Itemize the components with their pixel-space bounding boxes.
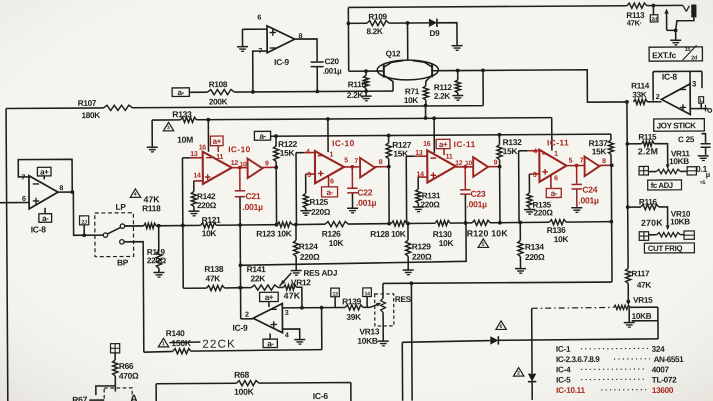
svg-text:10KB: 10KB (632, 312, 652, 321)
wire IC-9 pin 2 input (241, 318, 253, 320)
resistor R125 220 (stage 2) (305, 174, 307, 193)
svg-text:a-: a- (259, 132, 266, 141)
wire filter bias line (271, 134, 611, 136)
svg-text:a+: a+ (40, 168, 49, 177)
svg-text:IC-10: IC-10 (332, 138, 355, 148)
node a- (R108 input) (172, 88, 189, 97)
svg-text:R110: R110 (348, 80, 367, 89)
wire stage 4 input vertical / resistor R134 220 (519, 151, 521, 241)
wire ota output (stage 4) (566, 165, 584, 167)
svg-text:C22: C22 (357, 187, 372, 197)
svg-text:7: 7 (580, 158, 584, 165)
svg-text:R124: R124 (299, 241, 319, 251)
svg-text:9: 9 (494, 159, 498, 166)
svg-text:µ: µ (706, 170, 710, 179)
svg-text:CUT FRIQ: CUT FRIQ (648, 244, 683, 253)
buffer IC-10a follower (stage 1) (248, 158, 263, 178)
wire IC-11 pin 1 (stage 4) (551, 118, 553, 151)
resistor R130 10K (435, 221, 450, 226)
wire stage 2 input vertical / resistor R124 220 (296, 153, 297, 241)
wire IC-8 right plus input (690, 108, 708, 110)
wire pin 6 stub / node a- box (stage 4) (550, 175, 552, 188)
svg-text:R140: R140 (166, 328, 186, 338)
svg-text:220Ω: 220Ω (147, 256, 167, 265)
resistor R133 10M (152, 119, 180, 121)
svg-text:BP: BP (117, 257, 129, 267)
resistor R128 10K (391, 221, 407, 226)
wire legend diode line (402, 339, 658, 401)
svg-text:R118: R118 (142, 203, 161, 213)
svg-text:200K: 200K (209, 97, 228, 106)
svg-text:470Ω: 470Ω (119, 371, 139, 381)
capacitor C25 0.1u (702, 134, 706, 143)
svg-text:13: 13 (190, 151, 198, 158)
svg-text:10KB: 10KB (357, 336, 378, 346)
resistor R119 220 (158, 226, 160, 251)
resistor R66 470 (114, 353, 116, 360)
switch LP/BP dashed box (95, 213, 134, 257)
trimmer VR12 47K (RES ADJ) (284, 285, 297, 290)
svg-text:C24: C24 (582, 185, 597, 195)
op-amp IC-8 (right) box (653, 71, 702, 100)
svg-text:12: 12 (231, 160, 239, 167)
wire pin 6 stub / node a- box (stage 2) (328, 176, 330, 187)
wire stage 3 input vertical / resistor R129 220 (406, 156, 408, 240)
svg-text:5: 5 (482, 242, 485, 248)
svg-text:D9: D9 (429, 29, 440, 38)
svg-text:.001µ: .001µ (578, 195, 599, 205)
capacitor C23 .001u (stage 3) (464, 167, 466, 189)
svg-text:5: 5 (344, 157, 348, 164)
svg-text:47K: 47K (284, 291, 301, 301)
wire IC-11 pin 16 (stage 3) (433, 118, 435, 153)
connector box 2d (R113) (650, 15, 658, 22)
svg-text:10K: 10K (404, 96, 419, 105)
svg-text:IC-8: IC-8 (31, 224, 47, 234)
svg-text:47K: 47K (205, 273, 220, 283)
svg-text:R107: R107 (78, 99, 97, 108)
svg-text:33K: 33K (632, 90, 647, 99)
ota IC-10b (stage 2) (315, 151, 344, 183)
connector box 13 (331, 288, 340, 297)
svg-text:10KB: 10KB (670, 217, 690, 226)
wire pin 14 input (stage 3) (418, 176, 427, 178)
svg-text:8.2K: 8.2K (366, 27, 383, 36)
svg-text:220Ω: 220Ω (525, 252, 545, 262)
capacitor C22 .001u (stage 2) (351, 167, 353, 188)
wire ota output (stage 3) (456, 166, 473, 168)
resistor R139 39K (345, 305, 363, 310)
warning triangle 6 (output diode) (496, 321, 506, 330)
svg-text:324: 324 (652, 345, 666, 354)
node a+ box (stage 1) (210, 136, 223, 146)
switch pole (103, 233, 107, 237)
wire line A (audio input bus) (6, 70, 485, 401)
wire stage 1 input vertical (181, 158, 184, 288)
resistor R110 2.2K (365, 71, 367, 75)
svg-text:R121: R121 (202, 215, 222, 225)
diode D9 (429, 19, 437, 27)
svg-text:R67: R67 (72, 395, 87, 401)
pot VR11 10KB (fc ADJ) (639, 166, 648, 175)
svg-text:8: 8 (379, 159, 383, 166)
wire C21 node vertical (to IC-9 pin 2) (239, 225, 242, 319)
wire IC-10 pin 16 (stage 1) (207, 120, 209, 152)
svg-text:220Ω: 220Ω (421, 200, 441, 209)
svg-text:IC-11: IC-11 (547, 137, 569, 147)
svg-text:R142: R142 (197, 192, 216, 201)
svg-text:3: 3 (307, 172, 311, 179)
resistor R132 15K (stage 3) (498, 135, 500, 145)
svg-text:4: 4 (285, 330, 289, 339)
warning triangle 5 (R120) (478, 239, 488, 248)
svg-text:22K: 22K (250, 273, 265, 283)
op-amp IC-9 (top) pin 8 output wire (295, 39, 317, 61)
resistor R115 2.2M (627, 143, 641, 145)
svg-text:13: 13 (415, 150, 423, 157)
wire IC-10 pin 1 (stage 2) (327, 119, 329, 152)
svg-text:10K: 10K (439, 238, 454, 248)
svg-text:16: 16 (199, 144, 207, 151)
ota IC-11a (stage 3) (427, 150, 456, 182)
wire IC-9 output down to R140 (321, 308, 323, 350)
label CUT FRIQ box (644, 243, 694, 253)
svg-text:R71: R71 (405, 87, 420, 96)
svg-text:220Ω: 220Ω (534, 208, 554, 217)
warning triangle 1 (R140) (158, 338, 168, 347)
svg-text:IC-6: IC-6 (313, 391, 329, 401)
svg-text:12: 12 (455, 160, 463, 167)
resistor R116 270K (628, 206, 641, 208)
resistor R141 22K (251, 285, 278, 290)
svg-text:100K: 100K (234, 387, 254, 397)
label fc ADJ box (648, 180, 682, 190)
svg-text:A: A (130, 393, 138, 401)
svg-text:a-: a- (326, 188, 333, 197)
svg-text:IC-9: IC-9 (232, 323, 248, 333)
resistor R121 10K (201, 223, 217, 228)
warning triangle 4 (R118) (130, 189, 140, 198)
op-amp IC-8 (left) (29, 176, 58, 209)
svg-text:IC-2.3.6.7.8.9: IC-2.3.6.7.8.9 (556, 355, 600, 364)
svg-text:AN-6551: AN-6551 (654, 355, 685, 364)
svg-text:7: 7 (258, 46, 262, 55)
op-amp IC-8 (right) (661, 84, 690, 115)
svg-text:1: 1 (554, 151, 558, 158)
svg-text:IC-5: IC-5 (556, 375, 571, 384)
wire IC-8 feedback loop (18, 159, 72, 192)
capacitor C20 (311, 62, 324, 67)
op-amp IC-9 (top) pin 7 wire (253, 51, 268, 92)
svg-text:4007: 4007 (652, 365, 670, 374)
buffer IC-11b follower (stage 4) (585, 156, 600, 176)
svg-text:8: 8 (59, 183, 63, 192)
svg-text:15: 15 (685, 47, 691, 53)
svg-text:10K: 10K (202, 228, 217, 238)
pot VR15 10KB (626, 300, 630, 304)
svg-text:11: 11 (446, 154, 453, 161)
svg-text:RES: RES (395, 295, 412, 304)
svg-text:.001µ: .001µ (466, 199, 487, 209)
wire pin 4 input (stage 4) (528, 150, 540, 152)
wire IC-8 output (58, 192, 103, 236)
svg-text:R116: R116 (639, 198, 658, 207)
svg-text:6: 6 (554, 175, 558, 182)
wire Q12 left base line (349, 70, 377, 72)
svg-text:R109: R109 (368, 12, 387, 21)
wire pin 4 input (stage 2) (305, 152, 315, 154)
wire R66 to R67 box (96, 386, 116, 395)
label JOY STICK box (654, 119, 705, 132)
svg-text:15K: 15K (280, 148, 295, 158)
node a+ box (stage 3) (436, 139, 450, 148)
svg-text:15K: 15K (503, 146, 518, 156)
svg-text:6: 6 (22, 194, 26, 203)
wire R138/R141 feedback line (183, 287, 302, 308)
wire pin 3 input (stage 4) (529, 173, 539, 175)
capacitor C24 .001u (stage 4) (576, 166, 578, 184)
node a- box (IC-8 left) (39, 214, 52, 223)
resistor R136 10K (549, 220, 566, 225)
svg-text:7: 7 (354, 158, 358, 165)
svg-text:10M: 10M (177, 135, 193, 145)
wire pin 3 input (stage 2) (306, 173, 315, 175)
wire pin 13 input (stage 1) (190, 157, 203, 159)
svg-text:1: 1 (162, 341, 165, 347)
warning triangle 2 (lower diode) (513, 368, 523, 377)
svg-text:R108: R108 (209, 80, 228, 89)
svg-text:2.2K: 2.2K (347, 91, 364, 100)
resistor R71 10K (423, 86, 428, 100)
arrow (plug insert) (667, 12, 676, 31)
resistor R142 220 (stage 1) (193, 181, 195, 192)
warning triangle 3 (R133) (163, 122, 173, 131)
svg-text:2d: 2d (651, 17, 657, 23)
wire R108 line to C20/Q12 emitter (234, 90, 393, 93)
svg-text:C21: C21 (245, 191, 260, 201)
svg-text:9: 9 (265, 161, 269, 168)
svg-text:39K: 39K (346, 312, 361, 322)
svg-text:14: 14 (364, 291, 370, 297)
wire ota output (stage 2) (344, 166, 360, 168)
resistor R109 8.2K (348, 22, 366, 24)
op-amp IC-9 (top) pin 6 wire and ground (242, 29, 267, 47)
resistor R117 47K (626, 268, 631, 283)
svg-text:6: 6 (330, 178, 334, 185)
resistor R113 47K (627, 3, 647, 8)
node a+ box (IC-8 left) (37, 167, 51, 176)
ota IC-10a (stage 1) (203, 152, 232, 184)
wire VR13 bus down (output A) (410, 283, 413, 400)
svg-text:R128 10K: R128 10K (370, 229, 406, 239)
wire filter output vertical (610, 165, 613, 282)
svg-text:10KB: 10KB (669, 157, 689, 166)
jack EXT.fc (683, 5, 687, 11)
svg-text:2J: 2J (82, 220, 88, 226)
svg-text:IC-10.11: IC-10.11 (556, 386, 585, 395)
svg-text:220Ω: 220Ω (197, 201, 217, 210)
svg-text:R66: R66 (119, 361, 134, 371)
resistor R138 47K (207, 285, 225, 290)
wire VR15 left leg with diode (531, 308, 534, 400)
svg-text:4: 4 (533, 148, 537, 155)
wire buffer output (stage 2) (375, 166, 389, 168)
wire pin 13 input (stage 3) (415, 155, 427, 157)
svg-text:.001µ: .001µ (323, 67, 342, 76)
svg-text:IC-11: IC-11 (454, 139, 476, 149)
diode (to output, right) (490, 336, 498, 344)
svg-text:IC-4: IC-4 (556, 365, 571, 374)
svg-text:C 25: C 25 (678, 135, 695, 144)
svg-text:220Ω: 220Ω (311, 208, 331, 217)
svg-text:8: 8 (602, 158, 606, 165)
ground (R133 left end) (151, 120, 153, 147)
wire filter signal bus (125, 222, 612, 226)
svg-text:≈5: ≈5 (700, 180, 706, 186)
svg-text:R117: R117 (631, 269, 650, 278)
svg-text:6: 6 (499, 324, 502, 330)
svg-text:2: 2 (656, 92, 660, 101)
wire Q12 right base to R114 (483, 70, 627, 103)
svg-text:3: 3 (533, 172, 537, 179)
svg-text:.001µ: .001µ (356, 198, 377, 208)
svg-text:IC-8: IC-8 (662, 72, 678, 82)
svg-text:VR15: VR15 (633, 296, 653, 305)
resistor R112 2.2K (438, 69, 483, 71)
svg-text:R120 10K: R120 10K (467, 228, 509, 238)
svg-text:220Ω: 220Ω (300, 252, 320, 262)
svg-text:R125: R125 (309, 198, 328, 207)
pot VR13 10KB (RES) (375, 294, 394, 326)
svg-text:15K: 15K (592, 146, 607, 156)
svg-text:.001µ: .001µ (243, 202, 264, 212)
svg-text:IC-1: IC-1 (556, 345, 571, 354)
node a+ box (IC-9 bottom) (260, 292, 279, 301)
resistor R122 15K (stage 1) (275, 136, 277, 146)
svg-text:R129: R129 (412, 241, 432, 251)
svg-text:a+: a+ (265, 293, 274, 302)
ota IC-11b (stage 4) (539, 150, 566, 182)
wire pin 3 (IC-8 right) (689, 71, 691, 83)
wire control line B (197, 118, 552, 120)
svg-text:13600: 13600 (652, 386, 674, 395)
connector box 14 (363, 288, 372, 297)
wire buffer output (stage 1) (262, 166, 276, 168)
box IC-6 with resistor R68 100K (156, 383, 351, 401)
svg-text:R68: R68 (234, 370, 249, 380)
svg-text:TL-072: TL-072 (652, 375, 677, 384)
resistor R108 200K (189, 91, 207, 93)
resistor R127 15K (stage 2) (388, 135, 390, 142)
transistor Q12 (dual pair) (377, 60, 438, 80)
resistor R131 220 (stage 3) (417, 177, 419, 189)
svg-text:16: 16 (423, 141, 431, 148)
diode (VR15 leg, down) (528, 374, 536, 382)
svg-text:a-: a- (42, 214, 49, 223)
svg-text:10K: 10K (554, 234, 569, 244)
wire top fc bus vertical (347, 7, 349, 71)
resistor R126 10K (325, 221, 348, 226)
svg-text:IC-9: IC-9 (274, 57, 289, 67)
svg-text:R115: R115 (638, 133, 657, 142)
wire C21/C23 link line (240, 223, 466, 265)
resistor R120 10K (472, 220, 490, 225)
svg-text:10K: 10K (329, 238, 344, 248)
svg-text:R131: R131 (422, 191, 441, 200)
resistor R140 22K (150K struck out) (144, 350, 173, 353)
wire IC-8 input (0, 201, 29, 203)
buffer IC-11a follower (stage 3) (473, 157, 488, 177)
svg-text:R114: R114 (631, 81, 650, 90)
svg-text:a-: a- (178, 88, 185, 97)
wire IC-9 pin 3 output (282, 306, 345, 308)
svg-text:47K·: 47K· (627, 18, 642, 27)
buffer IC-10b follower (stage 2) (360, 158, 375, 178)
svg-text:R139: R139 (342, 296, 362, 306)
svg-text:13: 13 (332, 292, 338, 298)
wire top fc bus horizontal (348, 5, 682, 7)
resistor R137 15K (stage 4) (610, 134, 612, 140)
svg-text:4: 4 (134, 192, 137, 198)
svg-text:a+: a+ (439, 140, 448, 149)
svg-text:JOY STICK: JOY STICK (657, 121, 697, 130)
op-amp IC-9 (bottom) (253, 303, 282, 332)
switch BP contact (120, 240, 124, 244)
svg-text:3: 3 (167, 125, 170, 131)
dashed box A (R67) (104, 388, 132, 401)
connector box (R66 top) (110, 344, 119, 353)
svg-text:R134: R134 (525, 242, 545, 252)
svg-text:C23: C23 (470, 189, 485, 199)
svg-text:VR12: VR12 (291, 277, 311, 287)
resistor R118 47K (144, 223, 157, 228)
op-amp IC-9 (top) (267, 26, 295, 53)
svg-text:a-: a- (267, 339, 274, 348)
svg-text:a+: a+ (213, 137, 222, 146)
resistor R123 10K (277, 222, 292, 227)
svg-text:3: 3 (285, 308, 289, 317)
wire pin 11 stub (stage 3) (443, 149, 445, 155)
svg-text:270K: 270K (641, 218, 663, 228)
connector box (IC-8 right) (699, 97, 704, 103)
svg-text:1: 1 (330, 152, 334, 159)
svg-text:10: 10 (465, 160, 472, 167)
label EXT.fc box (649, 47, 702, 61)
svg-text:14: 14 (193, 172, 201, 179)
switch LP contact (120, 224, 124, 228)
svg-text:22CK: 22CK (202, 339, 236, 351)
svg-text:EXT.fc: EXT.fc (652, 50, 677, 60)
svg-text:8: 8 (298, 31, 302, 40)
svg-text:4: 4 (306, 149, 310, 156)
svg-text:6: 6 (257, 13, 261, 22)
svg-text:fc ADJ: fc ADJ (651, 181, 673, 190)
wire ota output (stage 1) (232, 167, 248, 169)
wire pin 11 stub (stage 1) (217, 146, 219, 152)
wire IC-9 pin 4 to ground (282, 329, 299, 339)
node a- box (IC-9 bottom) (263, 339, 277, 347)
resistor R114 33K (633, 99, 647, 104)
svg-text:R123 10K: R123 10K (256, 228, 292, 238)
svg-text:RES ADJ: RES ADJ (303, 269, 337, 278)
svg-text:IC-10: IC-10 (228, 144, 251, 154)
svg-text:10: 10 (240, 161, 247, 168)
svg-text:LP: LP (116, 202, 127, 212)
wire control spine (627, 102, 628, 268)
svg-text:47K: 47K (637, 281, 652, 290)
svg-text:2.2M: 2.2M (638, 146, 658, 156)
svg-text:220Ω: 220Ω (412, 252, 432, 262)
